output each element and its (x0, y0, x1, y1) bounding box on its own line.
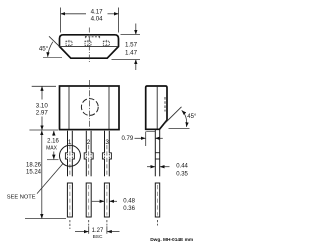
svg-text:0.48: 0.48 (123, 199, 135, 205)
top view vertical centerline (dash-dot) (88, 28, 90, 64)
dimension 1.57/1.47 arrows (135, 24, 137, 35)
lead 3 lower segment (104, 183, 109, 217)
45 degree chamfer callout (side view) (165, 107, 182, 124)
svg-text:1.57: 1.57 (125, 41, 138, 48)
side view body bottom thin line to lead (146, 130, 155, 132)
svg-text:0.36: 0.36 (123, 206, 135, 212)
svg-text:0.79: 0.79 (122, 136, 134, 142)
see-note leader line (37, 164, 63, 194)
dimension 2.16 MAX (53, 131, 55, 136)
svg-text:4.17: 4.17 (91, 9, 104, 16)
lead tip reference line (25, 218, 66, 220)
front view inner line left (68, 87, 70, 129)
top view hidden lead 2 (dashed square) (85, 41, 91, 45)
svg-text:45°: 45° (39, 45, 49, 52)
svg-text:BSC: BSC (93, 234, 103, 240)
dimension 0.44/0.35 (147, 166, 155, 168)
top view small dashed mark near top edge (85, 36, 100, 38)
dimension 4.17/4.04 extension line right (118, 8, 120, 33)
lead 2 upper (84, 131, 93, 177)
lead centerline dashes below numbers (69, 145, 71, 176)
side view: package body with chamfer (146, 86, 167, 129)
svg-text:SEE NOTE: SEE NOTE (7, 195, 36, 201)
svg-text:18.26: 18.26 (26, 162, 42, 168)
svg-text:2.16: 2.16 (47, 138, 59, 144)
side view lead lower segment (155, 183, 159, 217)
dimension 3.10/2.97 line with arrows (41, 86, 43, 99)
dimension 1.57/1.47 extension lines (121, 33, 141, 35)
top view hidden lead 1 (dashed square) (66, 41, 72, 45)
front view dashed circle (81, 99, 98, 116)
dimension 4.17/4.04 line with arrows (61, 13, 86, 15)
dimension 18.26/15.24 line with arrows (41, 131, 43, 145)
side view inner line (156, 87, 158, 129)
lead 2 lower segment (86, 183, 91, 217)
svg-text:2.97: 2.97 (36, 110, 49, 117)
lead 1 lower segment (67, 183, 72, 217)
side view hidden dashed line (164, 97, 166, 112)
front view: package body (60, 86, 120, 130)
side view lead break dash (157, 220, 159, 226)
side view lead upper (155, 130, 159, 177)
svg-text:MAX: MAX (46, 146, 58, 152)
svg-text:0.35: 0.35 (176, 171, 188, 177)
top view hidden lead 3 (dashed square) (103, 41, 109, 45)
svg-text:45°: 45° (187, 114, 197, 120)
dimension 1.27 BSC extension lines (88, 226, 90, 234)
top view lead center dashes through squares (68, 40, 70, 47)
lead 1 upper (65, 131, 74, 177)
svg-text:3: 3 (105, 139, 109, 146)
lead break dashes below tips (69, 220, 71, 229)
svg-text:0.44: 0.44 (176, 163, 188, 169)
svg-text:Dwg. MH-014E mm: Dwg. MH-014E mm (150, 237, 193, 243)
dimension 1.27 BSC arrows (75, 231, 88, 233)
top view chamfer edge line (60, 46, 118, 48)
45 degree chamfer callout (top view) (49, 36, 60, 46)
see-note circle on lead 1 (60, 145, 81, 166)
lead 3 upper (102, 131, 111, 177)
svg-text:15.24: 15.24 (26, 169, 42, 175)
front view inner line right (108, 87, 110, 129)
svg-text:2: 2 (87, 139, 91, 146)
svg-text:1.47: 1.47 (125, 49, 138, 56)
svg-text:1: 1 (68, 139, 72, 146)
dimension 3.10/2.97 extension lines (32, 85, 56, 87)
dimension 4.17/4.04 extension line left (60, 8, 62, 33)
svg-text:3.10: 3.10 (36, 103, 49, 110)
front view vertical centerline (89, 80, 91, 129)
svg-text:1.27: 1.27 (92, 228, 104, 234)
top view: package outline seen from above (60, 35, 119, 58)
svg-text:4.04: 4.04 (91, 16, 104, 23)
dimension 0.48/0.36 (92, 200, 104, 202)
